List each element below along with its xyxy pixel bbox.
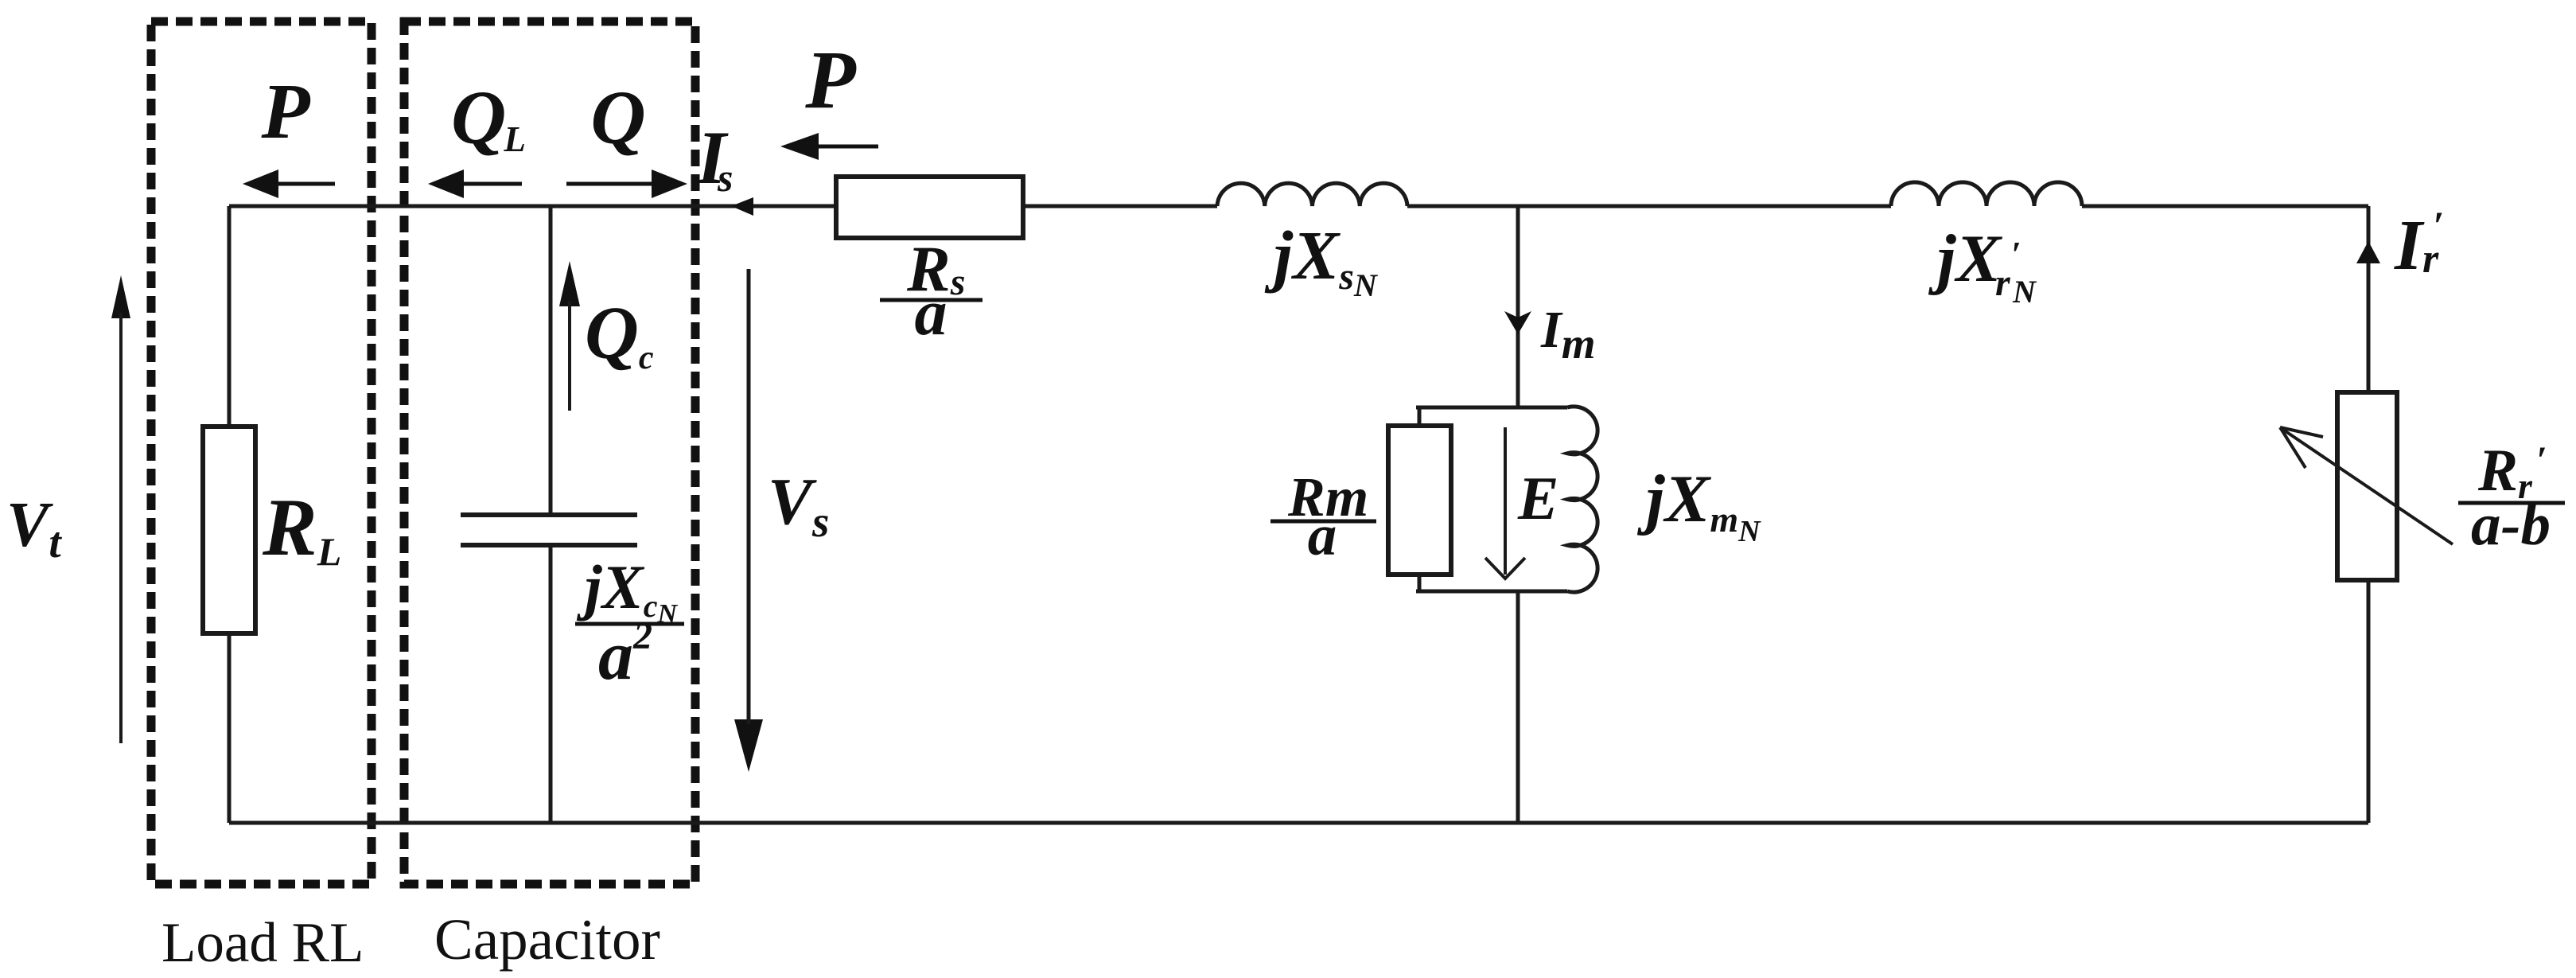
svg-text:jX: jX <box>1928 221 2003 296</box>
svg-text:a-b: a-b <box>2471 492 2551 558</box>
svg-text:′: ′ <box>2433 203 2444 247</box>
svg-text:r: r <box>1995 262 2011 304</box>
svg-text:a: a <box>1308 503 1337 567</box>
svg-text:Q: Q <box>590 75 645 160</box>
svg-text:Load RL: Load RL <box>161 912 364 974</box>
svg-text:′: ′ <box>2011 235 2021 274</box>
svg-text:a: a <box>598 618 633 695</box>
svg-text:2: 2 <box>632 615 652 657</box>
svg-text:Capacitor: Capacitor <box>434 907 660 972</box>
svg-text:E: E <box>1517 464 1558 532</box>
svg-text:′: ′ <box>2536 439 2547 481</box>
svg-text:N: N <box>2012 274 2037 310</box>
svg-text:P: P <box>804 34 857 126</box>
svg-text:P: P <box>260 67 310 155</box>
svg-text:s: s <box>717 155 733 200</box>
svg-text:a: a <box>915 276 948 349</box>
